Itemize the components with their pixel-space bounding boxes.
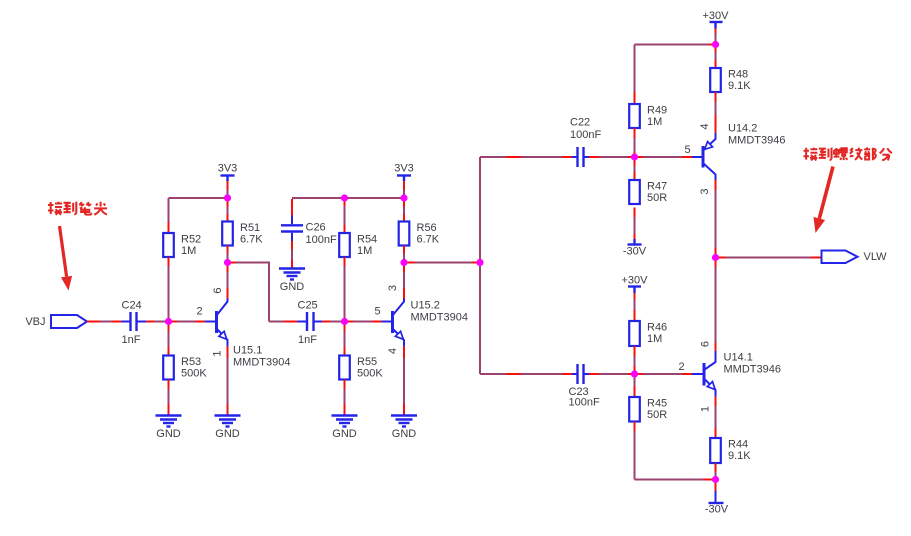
svg-text:2: 2 xyxy=(678,361,684,373)
svg-text:R56: R56 xyxy=(417,222,437,234)
svg-text:U15.2: U15.2 xyxy=(411,300,440,312)
svg-text:R53: R53 xyxy=(181,356,201,368)
svg-text:6: 6 xyxy=(700,341,712,347)
svg-text:GND: GND xyxy=(332,428,357,440)
svg-text:-30V: -30V xyxy=(705,504,729,516)
svg-text:3V3: 3V3 xyxy=(218,163,238,175)
svg-text:MMDT3904: MMDT3904 xyxy=(233,357,290,369)
svg-text:4: 4 xyxy=(387,348,399,354)
svg-text:9.1K: 9.1K xyxy=(728,80,751,92)
svg-text:3: 3 xyxy=(387,285,399,291)
svg-text:500K: 500K xyxy=(181,368,207,380)
svg-text:3: 3 xyxy=(699,188,711,194)
svg-text:VBJ: VBJ xyxy=(25,316,45,328)
svg-text:R55: R55 xyxy=(357,356,377,368)
svg-text:GND: GND xyxy=(280,281,305,293)
svg-text:100nF: 100nF xyxy=(306,234,337,246)
svg-text:R48: R48 xyxy=(728,69,748,81)
svg-text:R46: R46 xyxy=(647,322,667,334)
svg-text:1M: 1M xyxy=(647,116,662,128)
svg-text:MMDT3946: MMDT3946 xyxy=(724,364,781,376)
svg-text:R54: R54 xyxy=(357,234,377,246)
svg-text:GND: GND xyxy=(392,428,417,440)
svg-text:+30V: +30V xyxy=(703,10,730,22)
svg-text:1nF: 1nF xyxy=(122,334,141,346)
svg-text:6.7K: 6.7K xyxy=(417,234,440,246)
svg-text:500K: 500K xyxy=(357,368,383,380)
svg-text:GND: GND xyxy=(156,428,181,440)
svg-text:C24: C24 xyxy=(122,300,142,312)
svg-text:1M: 1M xyxy=(647,333,662,345)
svg-text:2: 2 xyxy=(196,306,202,318)
svg-text:1nF: 1nF xyxy=(298,334,317,346)
svg-text:MMDT3946: MMDT3946 xyxy=(728,135,785,147)
svg-text:R44: R44 xyxy=(728,439,748,451)
svg-text:6: 6 xyxy=(212,287,224,293)
svg-text:C26: C26 xyxy=(306,222,326,234)
svg-text:VLW: VLW xyxy=(864,251,888,263)
svg-text:5: 5 xyxy=(374,306,380,318)
svg-text:R52: R52 xyxy=(181,234,201,246)
svg-text:R47: R47 xyxy=(647,181,667,193)
svg-text:100nF: 100nF xyxy=(570,129,601,141)
svg-text:C22: C22 xyxy=(570,117,590,129)
svg-text:R49: R49 xyxy=(647,105,667,117)
svg-text:50R: 50R xyxy=(647,192,667,204)
svg-text:C25: C25 xyxy=(298,300,318,312)
svg-text:1: 1 xyxy=(700,406,712,412)
svg-text:4: 4 xyxy=(699,123,711,129)
svg-text:R45: R45 xyxy=(647,398,667,410)
svg-text:U14.2: U14.2 xyxy=(728,123,757,135)
svg-text:1M: 1M xyxy=(181,245,196,257)
svg-text:50R: 50R xyxy=(647,409,667,421)
svg-text:MMDT3904: MMDT3904 xyxy=(411,312,468,324)
svg-text:R51: R51 xyxy=(240,222,260,234)
svg-text:GND: GND xyxy=(215,428,240,440)
svg-text:U14.1: U14.1 xyxy=(724,352,753,364)
svg-text:1: 1 xyxy=(212,350,224,356)
svg-text:9.1K: 9.1K xyxy=(728,450,751,462)
svg-text:3V3: 3V3 xyxy=(394,163,414,175)
svg-text:100nF: 100nF xyxy=(569,397,600,409)
svg-text:5: 5 xyxy=(684,144,690,156)
svg-text:-30V: -30V xyxy=(623,246,647,258)
svg-text:1M: 1M xyxy=(357,245,372,257)
svg-text:6.7K: 6.7K xyxy=(240,234,263,246)
svg-text:U15.1: U15.1 xyxy=(233,345,262,357)
svg-text:+30V: +30V xyxy=(622,275,649,287)
